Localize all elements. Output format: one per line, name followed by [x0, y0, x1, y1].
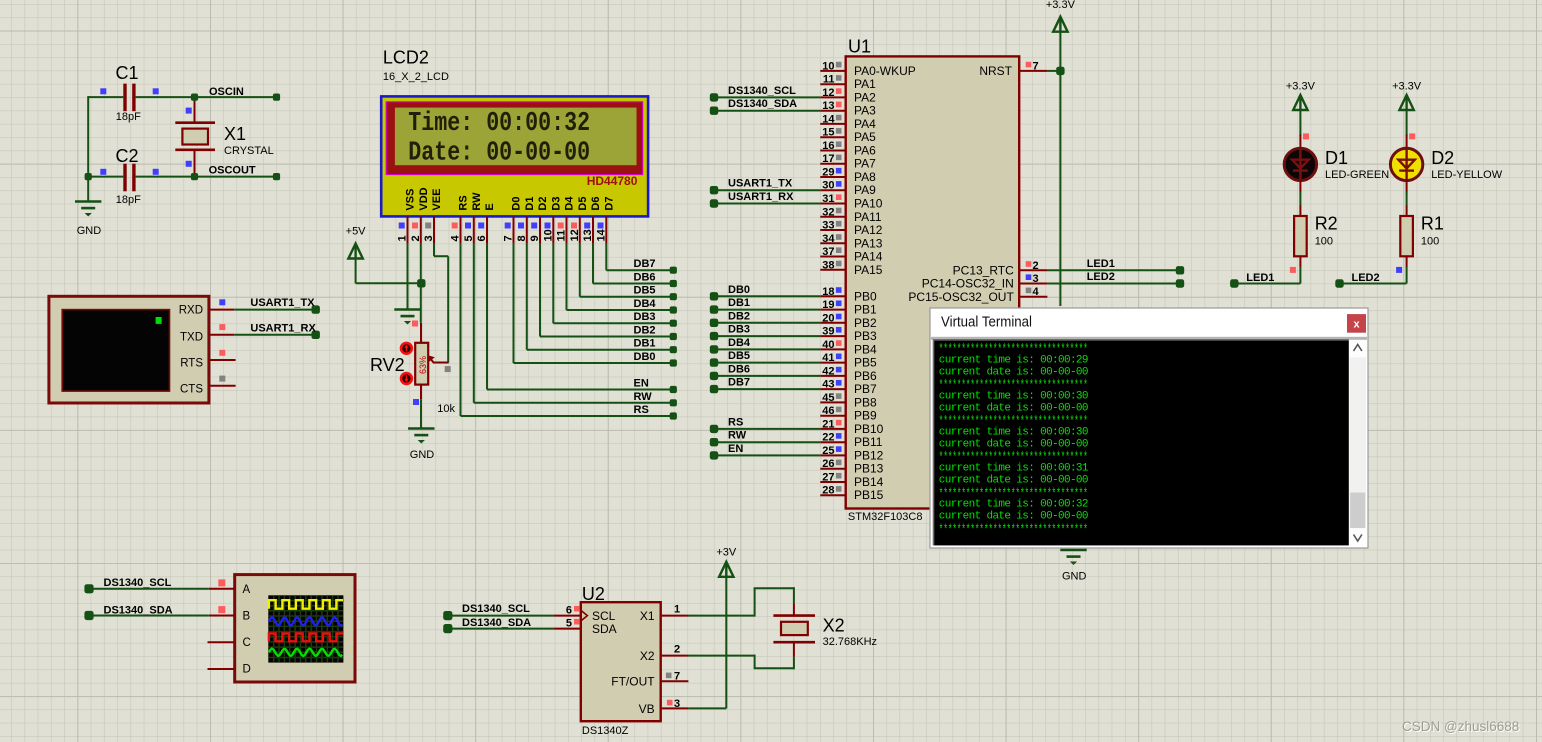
svg-text:DB6: DB6 — [728, 363, 750, 375]
svg-text:DB5: DB5 — [728, 350, 750, 362]
U1 pin 38 PA15 — [820, 269, 845, 271]
svg-text:2: 2 — [674, 644, 680, 656]
svg-text:X2: X2 — [640, 649, 655, 663]
svg-text:PA2: PA2 — [854, 90, 876, 104]
svg-text:28: 28 — [822, 485, 834, 497]
svg-text:PA5: PA5 — [854, 130, 876, 144]
svg-text:DS1340_SCL: DS1340_SCL — [462, 603, 530, 615]
svg-text:PB10: PB10 — [854, 422, 884, 436]
wire +3V vertical — [725, 576, 727, 708]
node DS1340_SDA (U2 side) — [443, 624, 452, 633]
wire DB2 (U1 side) — [714, 322, 820, 324]
handle RV2 top pin — [412, 321, 418, 327]
U1 pin 25 PB12 — [820, 454, 845, 456]
U1 pin 37 PA14 — [820, 256, 845, 258]
svg-text:2: 2 — [1033, 260, 1039, 272]
Virtual Terminal scrollbar — [1350, 340, 1367, 545]
RV2 adjust button up — [401, 343, 412, 354]
svg-text:current time is: 00:00:31: current time is: 00:00:31 — [939, 463, 1089, 475]
wire OSCOUT right segment — [136, 176, 277, 178]
svg-text:DB0: DB0 — [634, 351, 656, 363]
oscilloscope screen — [268, 595, 343, 662]
svg-text:10: 10 — [543, 229, 555, 241]
node RW (U1 side) — [710, 438, 718, 446]
svg-text:100: 100 — [1421, 236, 1439, 248]
Virtual Terminal screen — [931, 337, 1367, 340]
capacitor C2 — [116, 146, 142, 206]
svg-text:TXD: TXD — [180, 332, 203, 344]
wire to ground — [87, 177, 89, 202]
svg-text:PC14-OSC32_IN: PC14-OSC32_IN — [922, 277, 1014, 291]
svg-text:25: 25 — [822, 445, 834, 457]
svg-text:PA10: PA10 — [854, 197, 883, 211]
wire USART1_RX — [234, 334, 316, 336]
svg-text:D1: D1 — [524, 197, 536, 211]
svg-text:12: 12 — [822, 87, 834, 99]
wire LED2 (U1 side) — [1047, 283, 1180, 285]
svg-text:VDD: VDD — [418, 187, 430, 210]
node EN (LCD side) — [670, 386, 677, 393]
U1 pin 30 PA9 — [820, 189, 845, 191]
wire +5V horizontal — [356, 282, 421, 284]
LED D1 LED-GREEN — [1284, 148, 1316, 180]
node USART1_TX (U1 side) — [710, 186, 718, 194]
svg-text:SDA: SDA — [592, 622, 617, 636]
U1 pin 13 PA3 — [820, 110, 845, 112]
node DB5 (U1 side) — [710, 358, 718, 366]
svg-text:RV2: RV2 — [370, 355, 405, 375]
svg-text:D7: D7 — [603, 197, 615, 211]
svg-text:PA15: PA15 — [854, 263, 883, 277]
U1 pin 42 PB6 — [820, 375, 845, 377]
node DB6 (U1 side) — [710, 372, 718, 380]
node USART1_TX — [312, 305, 320, 313]
wire LCD net RS — [460, 243, 462, 416]
wire LCD net DB6 — [592, 243, 594, 284]
node DS1340_SCL (scope side) — [84, 584, 93, 593]
wire DS1340_SDA (U1 side) — [714, 110, 820, 112]
wire LCD net DB3 — [552, 243, 554, 323]
svg-text:GND: GND — [410, 449, 435, 461]
svg-text:8: 8 — [516, 235, 528, 241]
handle R1 bottom — [1396, 267, 1402, 273]
svg-text:18pF: 18pF — [116, 111, 141, 123]
node LED1 (LED side) — [1230, 279, 1238, 287]
U1 pin 33 PA12 — [820, 229, 845, 231]
svg-text:5: 5 — [463, 235, 475, 241]
svg-text:Time: 00:00:32: Time: 00:00:32 — [408, 109, 590, 139]
svg-text:RS: RS — [634, 404, 649, 416]
svg-text:R2: R2 — [1315, 214, 1338, 234]
U1 pin 11 PA1 — [820, 83, 845, 85]
svg-text:OSCOUT: OSCOUT — [209, 165, 256, 177]
svg-text:PA3: PA3 — [854, 104, 876, 118]
svg-text:PB15: PB15 — [854, 488, 884, 502]
U1 pin 27 PB14 — [820, 481, 845, 483]
svg-text:D0: D0 — [511, 197, 523, 211]
svg-text:LED1: LED1 — [1087, 258, 1115, 270]
svg-text:E: E — [484, 203, 496, 210]
svg-text:USART1_RX: USART1_RX — [250, 322, 316, 334]
svg-text:DS1340_SDA: DS1340_SDA — [728, 98, 797, 110]
svg-text:12: 12 — [569, 229, 581, 241]
Virtual Terminal window — [930, 308, 1368, 548]
svg-text:46: 46 — [822, 405, 834, 417]
svg-text:SCL: SCL — [592, 609, 616, 623]
node USART1_RX — [312, 331, 320, 339]
U1 pin 21 PB10 — [820, 428, 845, 430]
svg-text:+3V: +3V — [716, 547, 737, 559]
svg-text:RTS: RTS — [180, 358, 203, 370]
svg-text:19: 19 — [822, 299, 834, 311]
svg-text:DB2: DB2 — [728, 310, 750, 322]
wire RS (U1 side) — [714, 428, 820, 430]
svg-text:32: 32 — [822, 206, 834, 218]
svg-text:Date: 00-00-00: Date: 00-00-00 — [408, 139, 590, 169]
svg-text:D2: D2 — [537, 197, 549, 211]
U1 pin 39 PB3 — [820, 335, 845, 337]
U1 pin 28 PB15 — [820, 494, 845, 496]
svg-text:DB7: DB7 — [634, 258, 656, 270]
svg-text:45: 45 — [822, 392, 834, 404]
node DB3 (LCD side) — [670, 320, 677, 327]
U1 pin 43 PB7 — [820, 388, 845, 390]
svg-text:LED1: LED1 — [1246, 272, 1274, 284]
svg-text:VSS: VSS — [405, 189, 417, 211]
svg-text:X1: X1 — [640, 609, 655, 623]
node NRST junction — [1056, 67, 1064, 75]
svg-text:PB14: PB14 — [854, 475, 884, 489]
wire LED1 (U1 side) — [1047, 269, 1180, 271]
svg-text:USART1_TX: USART1_TX — [728, 178, 793, 190]
svg-text:current date is: 00-00-00: current date is: 00-00-00 — [939, 511, 1088, 523]
node DB7 (U1 side) — [710, 385, 718, 393]
LED D2 LED-YELLOW — [1390, 148, 1422, 180]
svg-text:DS1340Z: DS1340Z — [582, 725, 629, 737]
svg-text:6: 6 — [476, 235, 488, 241]
node DB7 (LCD side) — [670, 267, 677, 274]
virtual terminal instrument screen — [62, 310, 169, 392]
U1 pin 41 PB5 — [820, 362, 845, 364]
svg-text:PB12: PB12 — [854, 448, 884, 462]
svg-text:6: 6 — [566, 605, 572, 617]
svg-text:current time is: 00:00:32: current time is: 00:00:32 — [939, 499, 1088, 511]
svg-text:9: 9 — [529, 235, 541, 241]
svg-text:current time is: 00:00:29: current time is: 00:00:29 — [939, 354, 1088, 366]
svg-text:37: 37 — [822, 246, 834, 258]
RV2 wiper handle — [445, 366, 451, 372]
svg-text:PB4: PB4 — [854, 342, 877, 356]
U2 pin 2 X2 — [661, 655, 689, 657]
U1 pin 34 PA13 — [820, 242, 845, 244]
svg-text:30: 30 — [822, 180, 834, 192]
node DS1340_SDA (U1 side) — [710, 107, 718, 115]
LCD2 screen — [395, 108, 637, 166]
wire OSCIN left segment — [88, 96, 123, 98]
svg-text:7: 7 — [1033, 60, 1039, 72]
svg-text:RXD: RXD — [179, 304, 203, 316]
svg-text:LED2: LED2 — [1087, 271, 1115, 283]
wire +3.3V vertical — [1059, 31, 1061, 306]
node DB4 (LCD side) — [670, 306, 677, 313]
wire DS1340_SCL (U1 side) — [714, 96, 820, 98]
svg-text:D4: D4 — [564, 196, 576, 211]
U2 pin 3 VB — [661, 707, 689, 709]
wire DS1340_SCL (U2 side) — [448, 615, 553, 617]
U1 pin 19 PB1 — [820, 309, 845, 311]
oscilloscope trace C (red) — [269, 634, 343, 642]
wire OSCOUT left segment — [88, 176, 123, 178]
U1 pin 2 PC13_RTC — [1019, 269, 1047, 271]
U1 pin 10 PA0-WKUP — [820, 70, 845, 72]
node DB6 (LCD side) — [670, 280, 677, 287]
svg-text:PA4: PA4 — [854, 117, 876, 131]
wire X2 to crystal loop — [688, 655, 754, 657]
svg-text:+3.3V: +3.3V — [1286, 81, 1316, 93]
node DB2 (LCD side) — [670, 333, 677, 340]
svg-text:PA11: PA11 — [854, 210, 882, 224]
svg-text:D: D — [243, 664, 251, 676]
svg-text:PB1: PB1 — [854, 303, 877, 317]
ground (LCD VSS) — [394, 308, 420, 311]
svg-text:PB8: PB8 — [854, 395, 877, 409]
svg-text:DB1: DB1 — [728, 297, 750, 309]
wire EN (U1 side) — [714, 454, 820, 456]
node RS (LCD side) — [670, 412, 677, 419]
svg-text:CSDN @zhusl6688: CSDN @zhusl6688 — [1402, 719, 1519, 734]
wire D2 to R1 — [1406, 179, 1408, 193]
svg-text:PA12: PA12 — [854, 223, 883, 237]
svg-text:LED2: LED2 — [1352, 272, 1380, 284]
node USART1_RX (U1 side) — [710, 199, 718, 207]
svg-text:PC15-OSC32_OUT: PC15-OSC32_OUT — [908, 290, 1014, 304]
X1 handles — [186, 108, 192, 114]
node DS1340_SDA (scope side) — [84, 611, 93, 620]
svg-text:PB5: PB5 — [854, 356, 877, 370]
wire NRST to +3.3V — [1047, 70, 1060, 72]
svg-text:41: 41 — [822, 352, 834, 364]
svg-text:X1: X1 — [224, 124, 246, 144]
wire DB7 (U1 side) — [714, 388, 820, 390]
wire USART1_RX (U1 side) — [714, 203, 820, 205]
svg-text:7: 7 — [503, 235, 515, 241]
U1 pin 45 PB8 — [820, 401, 845, 403]
svg-text:B: B — [243, 611, 251, 623]
node DB3 (U1 side) — [710, 332, 718, 340]
wire +5V down — [355, 258, 357, 284]
node EN (U1 side) — [710, 451, 718, 459]
svg-text:LCD2: LCD2 — [383, 48, 429, 68]
wire RV2 to ground — [420, 399, 422, 428]
svg-text:42: 42 — [822, 365, 834, 377]
U2 pin 5 SDA — [553, 628, 581, 630]
svg-text:D3: D3 — [550, 197, 562, 211]
svg-text:DB3: DB3 — [728, 324, 750, 336]
wire +3.3V to D1 — [1299, 109, 1301, 136]
svg-text:DB2: DB2 — [634, 325, 656, 337]
svg-text:31: 31 — [822, 193, 834, 205]
svg-text:current time is: 00:00:30: current time is: 00:00:30 — [939, 427, 1088, 439]
wire DS1340_SDA (scope side) — [89, 615, 209, 617]
U1 pin 3 PC14-OSC32_IN — [1019, 283, 1047, 285]
svg-text:USART1_RX: USART1_RX — [728, 191, 794, 203]
U2 pin 7 FT/OUT — [661, 680, 689, 682]
wire LCD net DB4 — [566, 243, 568, 310]
svg-text:27: 27 — [822, 472, 834, 484]
U1 pin 31 PA10 — [820, 203, 845, 205]
svg-text:13: 13 — [822, 100, 834, 112]
svg-text:LED-YELLOW: LED-YELLOW — [1431, 169, 1503, 181]
svg-text:PB2: PB2 — [854, 316, 877, 330]
svg-text:4: 4 — [1033, 286, 1040, 298]
svg-text:18: 18 — [822, 286, 834, 298]
node OSCIN — [191, 94, 198, 101]
wire left vertical C1-C2 — [87, 96, 89, 178]
ground GND (crystal) — [75, 200, 101, 203]
svg-text:U1: U1 — [848, 37, 871, 57]
svg-text:D2: D2 — [1431, 148, 1454, 168]
wire VB to +3V — [688, 707, 726, 709]
svg-text:34: 34 — [822, 233, 835, 245]
svg-text:RW: RW — [471, 192, 483, 211]
svg-text:3: 3 — [423, 235, 435, 241]
svg-text:EN: EN — [728, 443, 743, 455]
wire LCD pin3 VEE — [433, 243, 435, 256]
U1 pin 40 PB4 — [820, 348, 845, 350]
C2 handles — [100, 169, 106, 175]
handle D1 top — [1303, 133, 1309, 139]
svg-text:RW: RW — [728, 430, 747, 442]
svg-text:17: 17 — [822, 153, 834, 165]
wire D1 to R2 — [1299, 179, 1301, 193]
handle R2 bottom — [1290, 267, 1296, 273]
svg-text:DB4: DB4 — [634, 298, 657, 310]
U1 pin 17 PA7 — [820, 163, 845, 165]
svg-text:PA0-WKUP: PA0-WKUP — [854, 64, 916, 78]
oscilloscope trace D (green) — [269, 649, 343, 656]
svg-text:7: 7 — [674, 671, 680, 683]
Virtual Terminal text — [939, 343, 1089, 539]
svg-text:STM32F103C8: STM32F103C8 — [848, 511, 923, 523]
svg-text:OSCIN: OSCIN — [209, 86, 244, 98]
svg-text:RS: RS — [728, 416, 743, 428]
svg-text:R1: R1 — [1421, 214, 1444, 234]
svg-text:40: 40 — [822, 339, 834, 351]
wire DB0 (U1 side) — [714, 295, 820, 297]
svg-text:RS: RS — [458, 195, 470, 210]
svg-text:16: 16 — [822, 140, 834, 152]
svg-text:VB: VB — [639, 702, 655, 716]
U1 pin 20 PB2 — [820, 322, 845, 324]
node RS (U1 side) — [710, 425, 718, 433]
svg-text:D1: D1 — [1325, 148, 1348, 168]
svg-text:PA6: PA6 — [854, 144, 876, 158]
svg-text:29: 29 — [822, 167, 834, 179]
U2 pin 1 X1 — [661, 615, 689, 617]
svg-text:C2: C2 — [116, 146, 139, 166]
Virtual Terminal close button — [1347, 314, 1366, 333]
svg-text:22: 22 — [822, 432, 834, 444]
ground GND (RV2) — [408, 427, 434, 430]
svg-text:PB3: PB3 — [854, 329, 877, 343]
svg-text:CRYSTAL: CRYSTAL — [224, 145, 274, 157]
svg-text:Virtual Terminal: Virtual Terminal — [941, 315, 1032, 331]
LCD2 body — [381, 96, 648, 216]
svg-text:x: x — [1354, 319, 1361, 331]
svg-text:11: 11 — [823, 74, 835, 86]
svg-text:PB9: PB9 — [854, 409, 877, 423]
svg-text:18pF: 18pF — [116, 194, 141, 206]
svg-text:DS1340_SDA: DS1340_SDA — [462, 617, 531, 629]
svg-text:current date is: 00-00-00: current date is: 00-00-00 — [939, 402, 1088, 414]
wire LCD net DB1 — [526, 243, 528, 350]
wire DB4 (U1 side) — [714, 348, 820, 350]
svg-text:D6: D6 — [590, 197, 602, 211]
svg-text:38: 38 — [822, 259, 834, 271]
svg-text:LED-GREEN: LED-GREEN — [1325, 169, 1389, 181]
wire LCD net EN — [486, 243, 488, 390]
svg-text:14: 14 — [822, 113, 835, 125]
wire LCD pin2 VDD vertical — [420, 243, 422, 323]
svg-text:DB0: DB0 — [728, 284, 750, 296]
svg-text:RW: RW — [634, 391, 653, 403]
node DB2 (U1 side) — [710, 319, 718, 327]
node LED2 (U1 side) — [1176, 279, 1184, 287]
node DB1 (U1 side) — [710, 305, 718, 313]
svg-text:DB7: DB7 — [728, 377, 750, 389]
svg-text:current date is: 00-00-00: current date is: 00-00-00 — [939, 366, 1088, 378]
wire +3.3V to D2 — [1406, 109, 1408, 136]
svg-text:26: 26 — [822, 458, 834, 470]
oscilloscope body — [235, 575, 355, 682]
wire USART1_TX — [234, 309, 316, 311]
LCD2 bezel — [386, 102, 643, 175]
wire LCD net DB7 — [605, 243, 607, 270]
wire LCD net DB2 — [539, 243, 541, 337]
svg-text:3: 3 — [674, 698, 680, 710]
oscilloscope trace B (blue) — [269, 617, 343, 625]
U1 pin 16 PA6 — [820, 150, 845, 152]
wire LCD pin1 VSS to ground — [407, 243, 409, 310]
U1 pin 18 PB0 — [820, 295, 845, 297]
svg-text:PA7: PA7 — [854, 157, 876, 171]
svg-text:EN: EN — [634, 378, 649, 390]
svg-text:C: C — [243, 637, 251, 649]
svg-text:current date is: 00-00-00: current date is: 00-00-00 — [939, 475, 1088, 487]
node DB0 (LCD side) — [670, 359, 677, 366]
svg-text:FT/OUT: FT/OUT — [611, 675, 655, 689]
svg-text:VEE: VEE — [431, 189, 443, 211]
svg-text:C1: C1 — [116, 63, 139, 83]
svg-text:100: 100 — [1315, 236, 1333, 248]
svg-text:A: A — [243, 584, 251, 596]
svg-text:16_X_2_LCD: 16_X_2_LCD — [383, 71, 449, 83]
svg-text:1: 1 — [397, 235, 409, 241]
svg-text:14: 14 — [596, 228, 608, 241]
svg-text:PA9: PA9 — [854, 183, 876, 197]
node DB4 (U1 side) — [710, 345, 718, 353]
svg-text:HD44780: HD44780 — [587, 174, 638, 188]
svg-text:PB13: PB13 — [854, 462, 884, 476]
wire DB3 (U1 side) — [714, 335, 820, 337]
capacitor C1 — [116, 63, 142, 123]
svg-text:DB5: DB5 — [634, 285, 656, 297]
svg-text:GND: GND — [1062, 571, 1087, 583]
potentiometer RV2 stub top — [420, 323, 422, 344]
RV2 adjust button down — [401, 373, 412, 384]
wire R1 to net LED2 — [1406, 267, 1408, 284]
wire X1 to crystal loop — [688, 615, 754, 617]
